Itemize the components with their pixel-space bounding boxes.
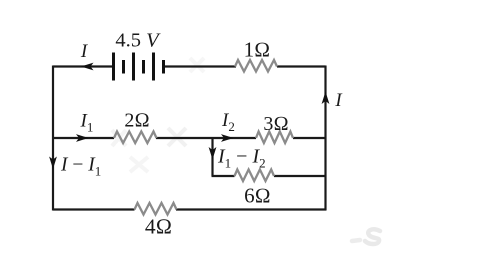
current arrow I1 - I2 (junction branch, pointing down) — [209, 147, 217, 160]
current arrow I (top wire, pointing left) — [81, 63, 94, 71]
wire: bottom side — [53, 208, 326, 210]
svg-text:I2: I2 — [221, 110, 235, 134]
wire: middle row — [53, 137, 326, 139]
svg-text:2Ω: 2Ω — [124, 110, 149, 132]
wire: 6-ohm branch — [212, 175, 327, 177]
svg-text:4.5 V: 4.5 V — [115, 30, 161, 52]
resistor R4 6ohm — [235, 170, 275, 182]
wire: right side — [324, 66, 326, 211]
resistor R3 3ohm — [256, 132, 293, 144]
svg-text:4Ω: 4Ω — [145, 215, 172, 239]
svg-text:3Ω: 3Ω — [263, 113, 288, 135]
current arrow I - I1 (left wire, pointing down) — [49, 157, 57, 170]
svg-text:6Ω: 6Ω — [244, 184, 271, 208]
watermark smudge x near 2ohm — [112, 58, 204, 172]
current arrow I1 (middle wire, pointing right) — [76, 134, 89, 142]
current arrow I2 (middle wire, pointing right) — [221, 134, 234, 142]
svg-text:I − I1: I − I1 — [60, 155, 101, 179]
battery B1 — [114, 53, 164, 81]
svg-text:I1: I1 — [80, 111, 94, 135]
wire: left side — [52, 66, 54, 211]
resistor R2 2ohm — [114, 132, 157, 144]
watermark smudge S — [352, 229, 380, 244]
current arrow I (right wire, pointing up) — [322, 92, 330, 105]
wire: junction branch down from middle row — [211, 138, 213, 176]
svg-text:I: I — [334, 90, 343, 111]
wire: top side (left corner to battery, battery to 1-ohm, 1-ohm to right corner) — [53, 65, 326, 67]
resistor R1 1ohm — [235, 60, 277, 72]
svg-text:I: I — [80, 41, 89, 62]
svg-text:I1 − I2: I1 − I2 — [217, 146, 266, 171]
resistor R5 4ohm — [135, 203, 177, 215]
svg-text:1Ω: 1Ω — [244, 38, 271, 62]
